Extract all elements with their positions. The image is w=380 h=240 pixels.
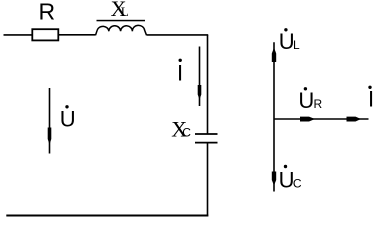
svg-text:I: I: [177, 61, 183, 86]
resistor R: [32, 29, 58, 40]
wire: bottom: [6, 215, 208, 217]
capacitor XC: [195, 134, 218, 143]
svg-text:C: C: [293, 177, 302, 191]
phasor arrow UC (down): [272, 172, 276, 186]
label I (current): [177, 59, 183, 86]
phasor arrow UR (right): [300, 117, 315, 122]
phasor horizontal line: [274, 118, 369, 120]
wire: right vertical lower (capacitor to bottom corner): [207, 143, 209, 217]
label UR: [298, 87, 322, 113]
svg-text:L: L: [121, 4, 129, 19]
inductor XL: [96, 25, 147, 35]
label I (phasor): [368, 86, 374, 112]
phasor arrow I (right): [347, 117, 362, 122]
label UC: [279, 165, 302, 193]
label UL: [279, 28, 300, 54]
label XC: [171, 117, 191, 142]
label XL: [111, 0, 129, 21]
label R: [39, 0, 56, 25]
svg-text:U: U: [60, 107, 76, 132]
label U: [60, 105, 76, 132]
svg-text:R: R: [314, 97, 323, 111]
svg-text:I: I: [368, 86, 374, 111]
label XL overline: [97, 20, 146, 22]
wire: top-left lead: [4, 34, 33, 36]
wire: inductor to top-right corner: [147, 34, 209, 36]
phasor arrow UL (up): [272, 48, 276, 63]
current arrow I: [198, 47, 202, 107]
svg-text:C: C: [182, 126, 191, 140]
voltage arrow U: [48, 88, 52, 154]
wire: resistor to inductor: [58, 34, 95, 36]
svg-text:R: R: [39, 0, 56, 25]
phasor axis vertical line: [273, 42, 275, 191]
wire: right vertical upper (corner to capacitor): [207, 35, 209, 134]
svg-text:U: U: [298, 88, 314, 113]
svg-text:L: L: [293, 38, 300, 52]
